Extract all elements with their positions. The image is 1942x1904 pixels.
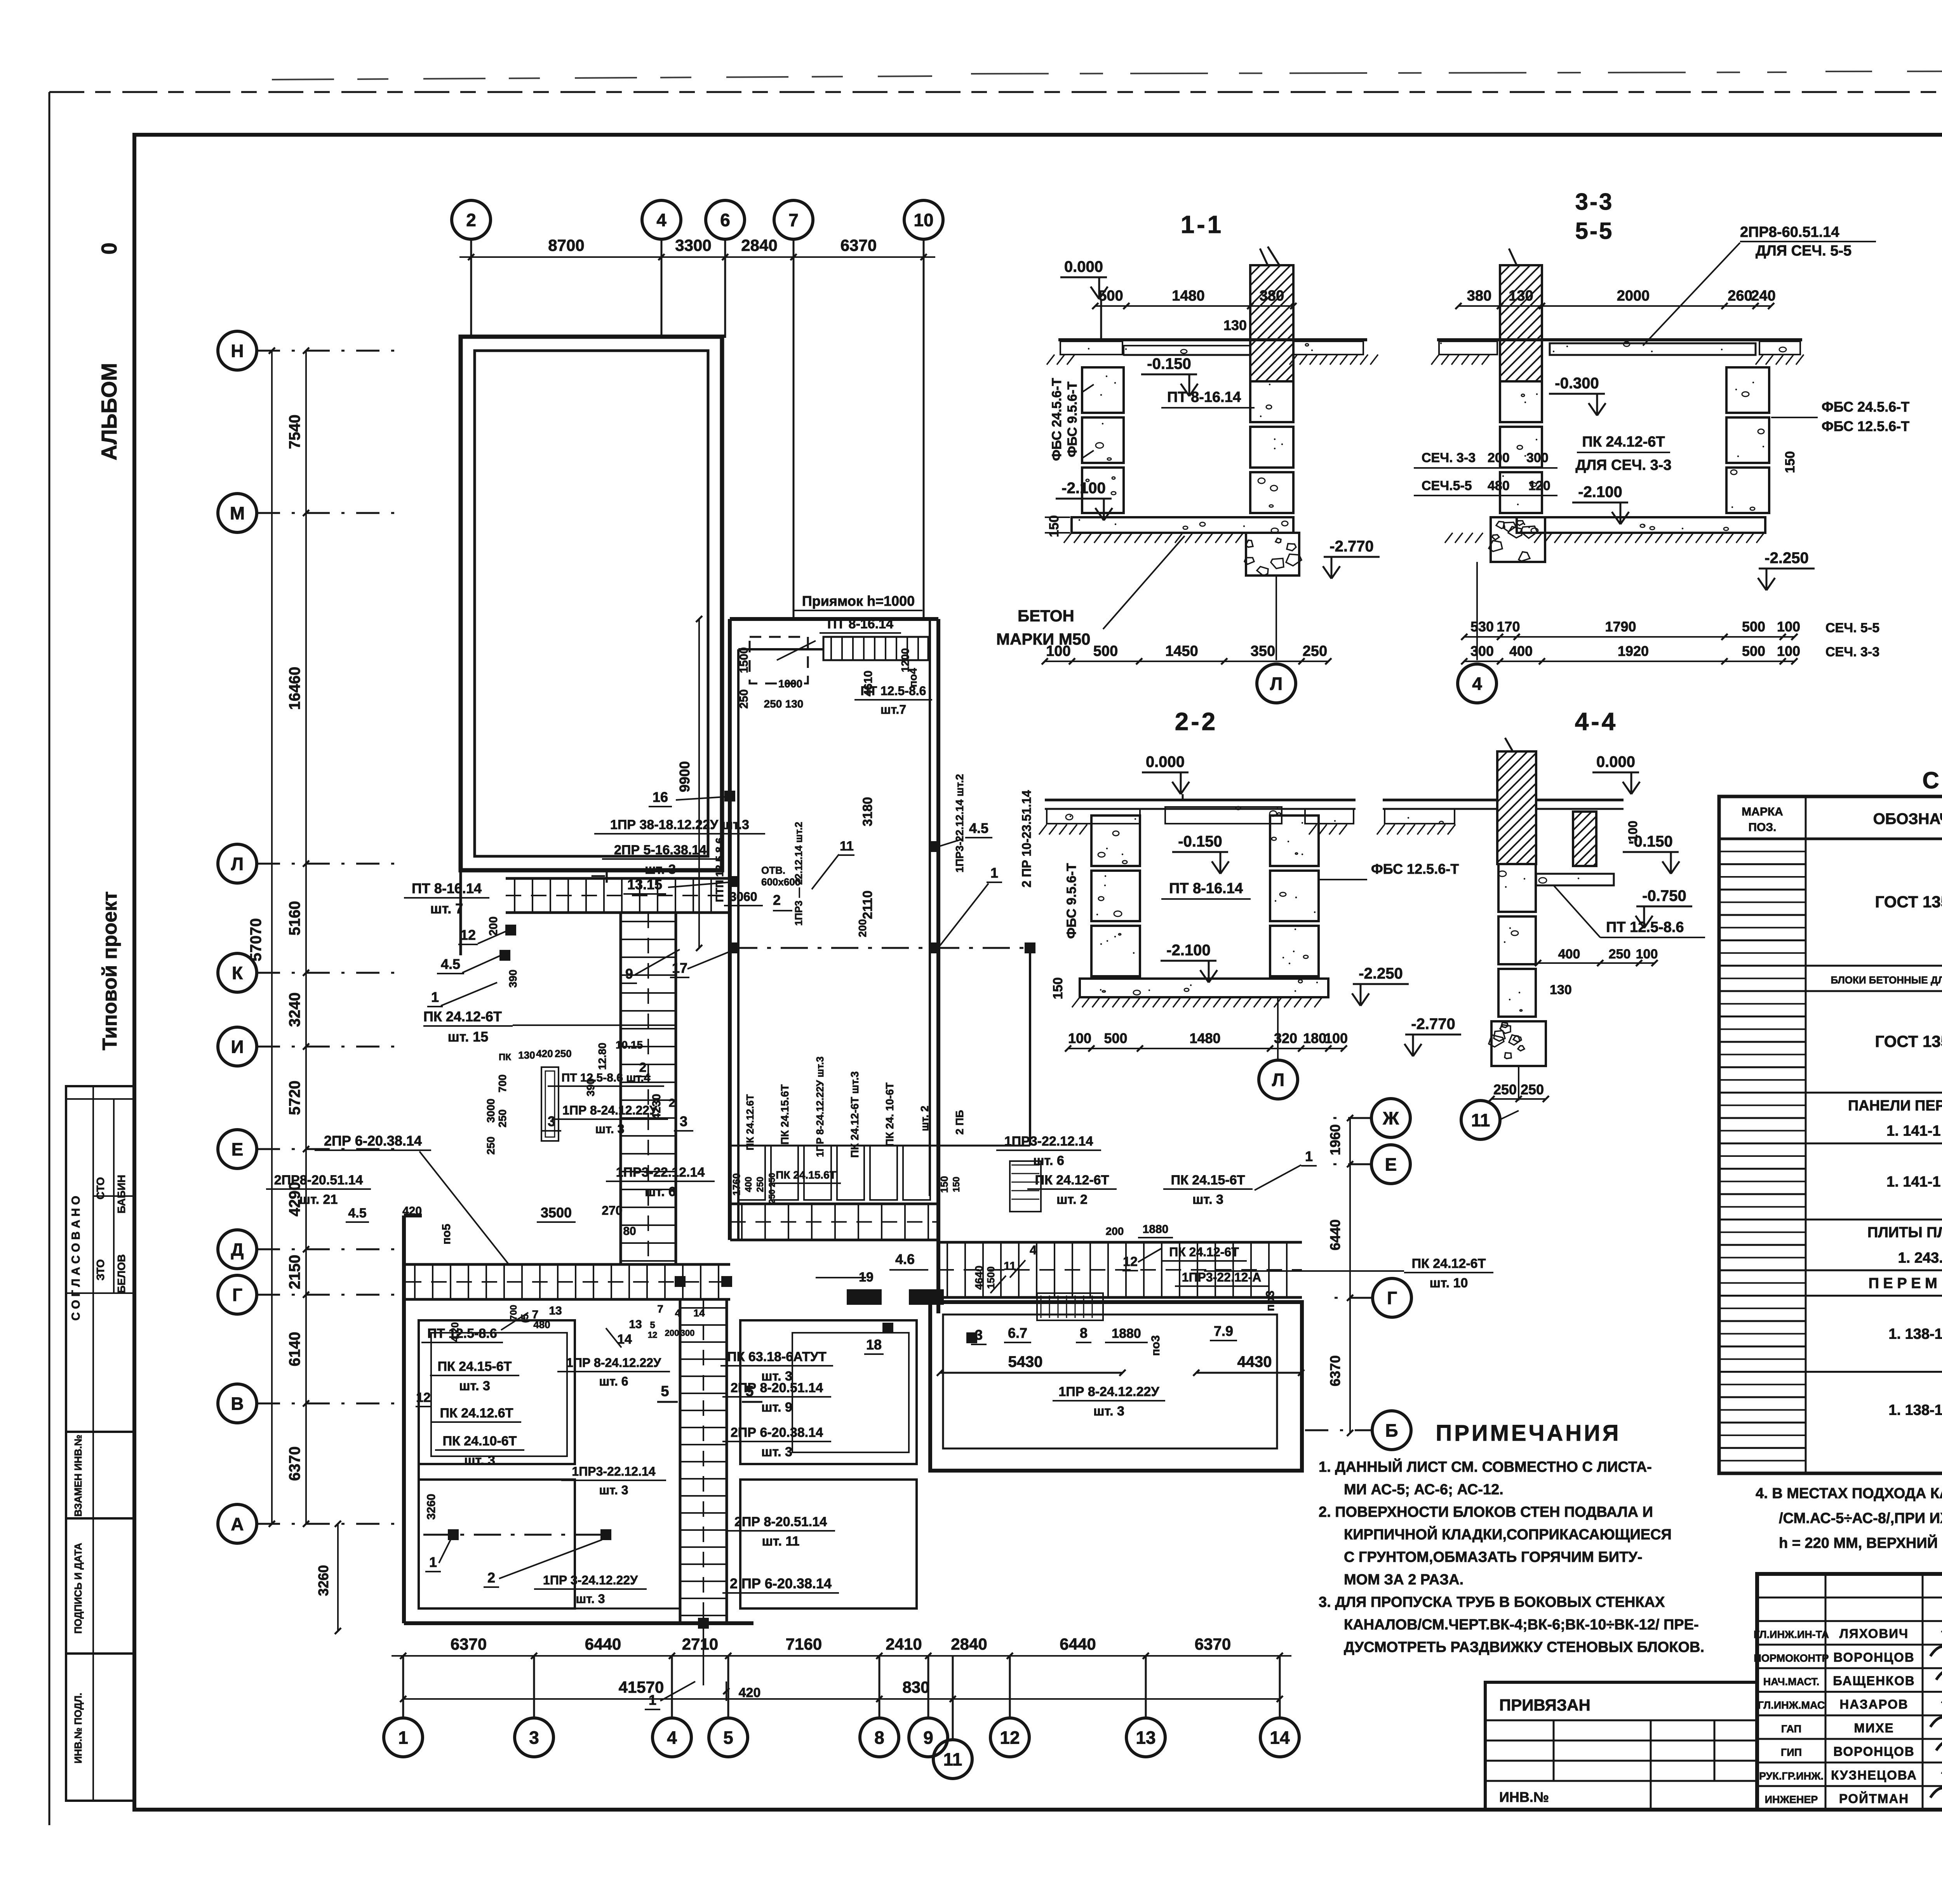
svg-text:ПК 24.12-6Т: ПК 24.12-6Т <box>1412 1256 1486 1271</box>
svg-text:ГЛ.ИНЖ.МАС: ГЛ.ИНЖ.МАС <box>1758 1699 1825 1711</box>
svg-text:150: 150 <box>1047 515 1061 537</box>
svg-text:100: 100 <box>1626 821 1640 841</box>
svg-text:1ПР 8-24.12.22У: 1ПР 8-24.12.22У <box>566 1356 661 1370</box>
svg-text:Приямок h=1000: Приямок h=1000 <box>802 593 915 609</box>
svg-text:200: 200 <box>856 919 868 937</box>
svg-text:Н: Н <box>231 341 244 361</box>
svg-text:11: 11 <box>1471 1110 1490 1130</box>
svg-text:ПОЗ.: ПОЗ. <box>1748 821 1776 834</box>
svg-text:шт. 3: шт. 3 <box>464 1453 495 1468</box>
svg-text:1ПР3-22.12.14 шт.2: 1ПР3-22.12.14 шт.2 <box>954 774 966 873</box>
svg-text:1ПР 3-24.12.22У: 1ПР 3-24.12.22У <box>543 1573 638 1587</box>
svg-text:шт. 9: шт. 9 <box>761 1400 792 1415</box>
svg-text:10: 10 <box>914 210 933 230</box>
svg-text:8700: 8700 <box>548 236 584 254</box>
svg-text:170: 170 <box>1497 619 1520 635</box>
svg-text:2 ПБ: 2 ПБ <box>954 1110 966 1135</box>
svg-text:h = 220 ММ, ВЕРХНИЙ РЯД БЛОКОВ: h = 220 ММ, ВЕРХНИЙ РЯД БЛОКОВ ЗАМЕНИТЬ … <box>1779 1534 1942 1551</box>
svg-text:ПК 24.15.6Т: ПК 24.15.6Т <box>779 1084 791 1145</box>
svg-text:ВЗАМЕН ИНВ.№: ВЗАМЕН ИНВ.№ <box>72 1435 84 1517</box>
svg-text:ПК 24.12.6Т: ПК 24.12.6Т <box>744 1094 756 1151</box>
svg-text:Л: Л <box>1270 674 1282 694</box>
svg-text:4: 4 <box>1030 1243 1037 1257</box>
svg-text:РУК.ГР.ИНЖ.: РУК.ГР.ИНЖ. <box>1759 1770 1824 1782</box>
svg-text:шт. 7: шт. 7 <box>430 901 463 916</box>
svg-text:шт. 6: шт. 6 <box>645 1184 676 1199</box>
svg-text:ПТП 12.5.8.6: ПТП 12.5.8.6 <box>713 838 726 902</box>
svg-text:1880: 1880 <box>1112 1326 1141 1341</box>
svg-text:4: 4 <box>667 1728 677 1748</box>
svg-text:ФБС 12.5.6-Т: ФБС 12.5.6-Т <box>1371 861 1459 877</box>
svg-text:шт. 3: шт. 3 <box>1093 1404 1124 1419</box>
svg-text:2110: 2110 <box>860 890 875 919</box>
svg-text:1ПР3-22.12.14: 1ПР3-22.12.14 <box>616 1165 705 1180</box>
svg-text:1. 141-1 В. 60: 1. 141-1 В. 60 <box>1886 1174 1942 1190</box>
svg-text:ПК 24.12-6Т шт.3: ПК 24.12-6Т шт.3 <box>849 1071 861 1158</box>
svg-text:МАРКА: МАРКА <box>1742 805 1783 818</box>
svg-text:500: 500 <box>1742 643 1765 659</box>
svg-text:ПЛИТЫ ПЛОСКИЕ: ПЛИТЫ ПЛОСКИЕ <box>1867 1224 1942 1241</box>
svg-text:2: 2 <box>669 1097 675 1109</box>
svg-text:250: 250 <box>1609 947 1631 962</box>
svg-text:Д: Д <box>231 1240 244 1260</box>
svg-text:6.7: 6.7 <box>1008 1325 1027 1341</box>
svg-text:2ПР8-20.51.14: 2ПР8-20.51.14 <box>274 1173 363 1188</box>
svg-text:ПТ 12.5-8.6: ПТ 12.5-8.6 <box>1606 919 1684 935</box>
svg-text:ПК 63.18-6АТУТ: ПК 63.18-6АТУТ <box>727 1349 827 1364</box>
svg-text:ПТ 8-16.14: ПТ 8-16.14 <box>827 617 893 631</box>
svg-text:5-5: 5-5 <box>1575 218 1614 244</box>
svg-text:1. 138-10 В.1: 1. 138-10 В.1 <box>1888 1326 1942 1342</box>
svg-text:-2.100: -2.100 <box>1166 942 1210 959</box>
svg-text:14: 14 <box>1270 1728 1290 1748</box>
svg-text:3: 3 <box>680 1113 687 1129</box>
svg-text:СТО: СТО <box>94 1177 106 1200</box>
svg-text:СЕЧ. 5-5: СЕЧ. 5-5 <box>1825 621 1879 635</box>
svg-text:700: 700 <box>508 1305 519 1320</box>
svg-text:8: 8 <box>874 1728 884 1748</box>
svg-text:КИРПИЧНОЙ КЛАДКИ,СОПРИКАСАЮЩИЕ: КИРПИЧНОЙ КЛАДКИ,СОПРИКАСАЮЩИЕСЯ <box>1344 1525 1672 1543</box>
svg-text:400: 400 <box>1509 643 1533 659</box>
svg-text:шт. 10: шт. 10 <box>1430 1276 1468 1290</box>
svg-text:1920: 1920 <box>1618 643 1649 659</box>
svg-text:ПОДПИСЬ И ДАТА: ПОДПИСЬ И ДАТА <box>72 1543 84 1634</box>
svg-text:Л: Л <box>1272 1070 1284 1090</box>
svg-text:РОЙТМАН: РОЙТМАН <box>1839 1791 1909 1806</box>
svg-text:МАРКИ М50: МАРКИ М50 <box>996 630 1091 648</box>
svg-text:1450: 1450 <box>1165 643 1198 659</box>
svg-text:530: 530 <box>1470 619 1494 635</box>
svg-text:0.000: 0.000 <box>1146 753 1185 770</box>
svg-text:5: 5 <box>661 1383 669 1400</box>
svg-text:ПК 24.15-6Т: ПК 24.15-6Т <box>438 1359 512 1374</box>
svg-text:300: 300 <box>680 1328 695 1338</box>
svg-text:МОМ ЗА 2 РАЗА.: МОМ ЗА 2 РАЗА. <box>1344 1572 1463 1588</box>
svg-text:6440: 6440 <box>585 1635 621 1653</box>
svg-text:200: 200 <box>1106 1225 1124 1237</box>
svg-text:1880: 1880 <box>1143 1223 1169 1236</box>
svg-text:2 ПР 10-23.51.14: 2 ПР 10-23.51.14 <box>1020 790 1034 887</box>
svg-text:6370: 6370 <box>1195 1635 1231 1653</box>
svg-text:400: 400 <box>743 1177 754 1192</box>
svg-text:С ГРУНТОМ,ОБМАЗАТЬ ГОРЯЧИМ БИ: С ГРУНТОМ,ОБМАЗАТЬ ГОРЯЧИМ БИТУ- <box>1344 1549 1643 1565</box>
svg-text:150: 150 <box>938 1176 950 1193</box>
svg-text:12: 12 <box>460 927 476 943</box>
svg-text:шт. 2: шт. 2 <box>1056 1192 1088 1207</box>
svg-text:1ПР 38-18.12.22У шт.3: 1ПР 38-18.12.22У шт.3 <box>610 817 749 832</box>
svg-text:12.80: 12.80 <box>596 1043 608 1070</box>
svg-text:БЛОКИ БЕТОННЫЕ ДЛЯ СТЕН ПОДВАЛ: БЛОКИ БЕТОННЫЕ ДЛЯ СТЕН ПОДВАЛА <box>1831 974 1942 986</box>
svg-text:по4: по4 <box>907 668 919 687</box>
svg-text:Е: Е <box>1385 1155 1397 1175</box>
svg-text:4: 4 <box>656 210 666 230</box>
svg-text:ФБС 9.5.6-Т: ФБС 9.5.6-Т <box>1064 863 1079 939</box>
svg-text:1ПР 8-24.12.22У шт.3: 1ПР 8-24.12.22У шт.3 <box>814 1056 826 1157</box>
svg-text:СЕЧ.5-5: СЕЧ.5-5 <box>1422 478 1472 493</box>
svg-text:-2.100: -2.100 <box>1061 480 1105 497</box>
svg-text:НОРМОКОНТР: НОРМОКОНТР <box>1754 1652 1829 1664</box>
svg-text:(5: (5 <box>519 1314 531 1323</box>
svg-text:250: 250 <box>496 1109 508 1128</box>
svg-text:13: 13 <box>549 1304 562 1317</box>
svg-text:11: 11 <box>1004 1260 1016 1273</box>
svg-text:А: А <box>231 1514 244 1534</box>
svg-text:130: 130 <box>1223 317 1247 333</box>
svg-text:ГАП: ГАП <box>1781 1723 1801 1735</box>
svg-text:2710: 2710 <box>682 1635 718 1653</box>
svg-text:ИНЖЕНЕР: ИНЖЕНЕР <box>1765 1794 1818 1805</box>
svg-text:4. В МЕСТАХ ПОДХОДА КАНАЛОВ К: 4. В МЕСТАХ ПОДХОДА КАНАЛОВ К ШТРАБИРУЕМ… <box>1756 1485 1942 1502</box>
svg-text:-0.150: -0.150 <box>1147 355 1191 372</box>
svg-text:ОБОЗНАЧЕНИЕ: ОБОЗНАЧЕНИЕ <box>1873 810 1942 828</box>
svg-text:6440: 6440 <box>1060 1635 1096 1653</box>
svg-text:16: 16 <box>653 789 668 805</box>
svg-text:К: К <box>232 963 243 983</box>
svg-text:500: 500 <box>1098 288 1123 304</box>
svg-text:830: 830 <box>902 1678 929 1696</box>
svg-text:150: 150 <box>951 1177 962 1192</box>
svg-text:250: 250 <box>1521 1082 1544 1097</box>
svg-text:2ПР 6-20.38.14: 2ПР 6-20.38.14 <box>324 1133 422 1149</box>
svg-text:2-2: 2-2 <box>1175 708 1218 736</box>
svg-text:С О Г Л А С О В А Н О: С О Г Л А С О В А Н О <box>70 1196 82 1320</box>
svg-text:180: 180 <box>1303 1030 1326 1046</box>
svg-text:300: 300 <box>1526 450 1549 465</box>
svg-text:4: 4 <box>1472 674 1482 694</box>
svg-text:МИХЕ: МИХЕ <box>1854 1721 1894 1735</box>
svg-text:шт. 3: шт. 3 <box>459 1379 490 1393</box>
svg-text:ПАНЕЛИ ПЕРЕКРЫТИЯ: ПАНЕЛИ ПЕРЕКРЫТИЯ <box>1848 1097 1942 1114</box>
svg-text:ГЛ.ИНЖ.ИН-ТА: ГЛ.ИНЖ.ИН-ТА <box>1754 1629 1829 1640</box>
svg-text:ПТ 8-16.14: ПТ 8-16.14 <box>412 880 482 896</box>
svg-text:5: 5 <box>723 1728 733 1748</box>
svg-text:ФБС 24.5.6-Т: ФБС 24.5.6-Т <box>1049 378 1064 461</box>
svg-text:350: 350 <box>1251 643 1275 659</box>
svg-text:3260: 3260 <box>425 1494 438 1520</box>
svg-text:3. ДЛЯ ПРОПУСКА ТРУБ В БОКОВЫХ: 3. ДЛЯ ПРОПУСКА ТРУБ В БОКОВЫХ СТЕНКАХ <box>1319 1594 1665 1610</box>
svg-text:250: 250 <box>755 1177 766 1192</box>
svg-text:250: 250 <box>764 698 782 710</box>
svg-text:шт. 15: шт. 15 <box>448 1029 489 1045</box>
svg-text:И: И <box>231 1037 244 1057</box>
svg-text:1: 1 <box>990 865 998 881</box>
svg-text:12: 12 <box>648 1330 657 1340</box>
svg-text:шт. 11: шт. 11 <box>762 1534 800 1549</box>
svg-text:200: 200 <box>487 916 500 936</box>
svg-text:2: 2 <box>487 1570 495 1586</box>
svg-text:ПТ 12.5-8.6 шт.4: ПТ 12.5-8.6 шт.4 <box>562 1071 651 1084</box>
svg-text:Ж: Ж <box>1382 1108 1399 1128</box>
svg-text:100: 100 <box>1777 643 1800 659</box>
svg-text:5: 5 <box>650 1320 655 1330</box>
svg-text:0.000: 0.000 <box>1596 753 1635 770</box>
svg-text:ГОСТ 13579-78: ГОСТ 13579-78 <box>1875 1032 1942 1050</box>
svg-text:13: 13 <box>1136 1728 1155 1748</box>
svg-text:1960: 1960 <box>1327 1124 1343 1155</box>
svg-text:3240: 3240 <box>286 993 303 1027</box>
svg-text:шт. 6: шт. 6 <box>599 1374 628 1388</box>
svg-text:0.000: 0.000 <box>1064 258 1103 275</box>
svg-text:9: 9 <box>625 966 633 982</box>
svg-text:ПТ 8-16.14: ПТ 8-16.14 <box>1167 389 1241 405</box>
svg-text:1ПР3-22.12.14: 1ПР3-22.12.14 <box>572 1464 655 1478</box>
svg-text:17: 17 <box>672 960 687 976</box>
svg-text:БЕТОН: БЕТОН <box>1018 607 1074 625</box>
svg-text:1: 1 <box>429 1554 437 1570</box>
svg-text:1-1: 1-1 <box>1181 210 1224 238</box>
svg-text:6440: 6440 <box>1327 1219 1343 1250</box>
svg-text:250: 250 <box>485 1137 497 1155</box>
svg-text:ПК 24.15-6Т: ПК 24.15-6Т <box>1171 1173 1245 1188</box>
svg-text:1: 1 <box>431 989 439 1005</box>
svg-text:ПК: ПК <box>499 1052 511 1062</box>
svg-text:Л: Л <box>231 854 244 874</box>
svg-text:11: 11 <box>943 1749 962 1770</box>
svg-text:СЕЧ. 3-3: СЕЧ. 3-3 <box>1422 450 1476 465</box>
svg-text:2ПР 8-20.51.14: 2ПР 8-20.51.14 <box>731 1381 823 1395</box>
svg-text:1480: 1480 <box>1172 288 1205 304</box>
svg-text:100: 100 <box>1068 1030 1091 1046</box>
svg-text:ГОСТ 13579-78: ГОСТ 13579-78 <box>1875 892 1942 911</box>
svg-text:150: 150 <box>1051 977 1065 1000</box>
svg-text:КАНАЛОВ/СМ.ЧЕРТ.ВК-4;ВК-6;ВК-1: КАНАЛОВ/СМ.ЧЕРТ.ВК-4;ВК-6;ВК-10÷ВК-12/ П… <box>1344 1617 1699 1633</box>
svg-text:7.9: 7.9 <box>1214 1323 1233 1339</box>
svg-text:НАЗАРОВ: НАЗАРОВ <box>1839 1697 1908 1711</box>
svg-text:7: 7 <box>657 1303 663 1315</box>
svg-text:12: 12 <box>1123 1254 1138 1269</box>
svg-text:3: 3 <box>975 1327 983 1343</box>
svg-text:7540: 7540 <box>286 415 303 449</box>
svg-text:ПТ 12.5-8.6: ПТ 12.5-8.6 <box>427 1326 497 1341</box>
svg-text:ВОРОНЦОВ: ВОРОНЦОВ <box>1833 1744 1914 1759</box>
svg-text:2840: 2840 <box>951 1635 987 1653</box>
svg-text:ПК 24. 10-6Т: ПК 24. 10-6Т <box>884 1083 896 1147</box>
svg-text:1: 1 <box>1305 1148 1313 1164</box>
svg-text:2840: 2840 <box>741 236 777 254</box>
svg-text:шт. 2: шт. 2 <box>919 1106 931 1131</box>
svg-text:420: 420 <box>739 1685 761 1700</box>
svg-text:130: 130 <box>1550 982 1572 997</box>
svg-text:1. ДАННЫЙ ЛИСТ СМ. СОВМЕСТНО С: 1. ДАННЫЙ ЛИСТ СМ. СОВМЕСТНО С ЛИСТА- <box>1319 1458 1652 1475</box>
svg-text:шт. 3: шт. 3 <box>645 862 676 877</box>
svg-text:250: 250 <box>1303 643 1327 659</box>
svg-text:2: 2 <box>466 210 476 230</box>
svg-text:500: 500 <box>1104 1030 1127 1046</box>
svg-text:Е: Е <box>231 1139 244 1160</box>
svg-text:1: 1 <box>649 1692 656 1708</box>
svg-text:7: 7 <box>788 210 799 230</box>
svg-text:4.5: 4.5 <box>348 1206 366 1221</box>
svg-text:130: 130 <box>785 698 804 710</box>
svg-text:3060: 3060 <box>729 890 757 904</box>
svg-text:-2.250: -2.250 <box>1359 965 1403 982</box>
svg-text:500: 500 <box>1093 643 1118 659</box>
svg-text:2150: 2150 <box>286 1255 303 1289</box>
svg-text:Г: Г <box>232 1285 242 1305</box>
svg-text:2: 2 <box>773 892 781 908</box>
svg-text:700: 700 <box>496 1075 508 1093</box>
svg-text:ДЛЯ СЕЧ. 3-3: ДЛЯ СЕЧ. 3-3 <box>1575 457 1671 473</box>
svg-text:2000: 2000 <box>1617 288 1650 304</box>
svg-text:4610: 4610 <box>862 671 875 697</box>
svg-text:ФБС 24.5.6-Т: ФБС 24.5.6-Т <box>1822 399 1909 415</box>
svg-text:7: 7 <box>532 1308 539 1321</box>
svg-text:380: 380 <box>1467 288 1491 304</box>
svg-text:1500: 1500 <box>738 647 750 673</box>
svg-text:БЕЛОВ: БЕЛОВ <box>115 1254 127 1293</box>
svg-text:6140: 6140 <box>286 1332 303 1367</box>
svg-text:1ПР3-22.12.14: 1ПР3-22.12.14 <box>1004 1134 1093 1149</box>
svg-text:-2.770: -2.770 <box>1411 1015 1455 1033</box>
svg-text:200: 200 <box>665 1328 679 1338</box>
svg-text:6370: 6370 <box>451 1635 487 1653</box>
svg-text:2ПР 8-20.51.14: 2ПР 8-20.51.14 <box>734 1515 827 1529</box>
svg-text:шт. 3: шт. 3 <box>595 1122 624 1136</box>
svg-text:9900: 9900 <box>677 761 693 792</box>
svg-text:3: 3 <box>529 1728 539 1748</box>
svg-text:ИНВ.№: ИНВ.№ <box>1499 1789 1549 1805</box>
svg-text:Б: Б <box>1385 1421 1398 1441</box>
svg-text:ПК 24.12-6Т: ПК 24.12-6Т <box>1582 434 1665 450</box>
svg-text:4430: 4430 <box>1237 1353 1272 1370</box>
svg-text:1500: 1500 <box>985 1266 997 1289</box>
svg-text:8: 8 <box>1080 1325 1088 1341</box>
svg-text:16460: 16460 <box>286 667 303 710</box>
svg-text:-2.100: -2.100 <box>1578 483 1622 501</box>
svg-text:4.5: 4.5 <box>441 956 460 972</box>
svg-text:МИ АС-5; АС-6; АС-12.: МИ АС-5; АС-6; АС-12. <box>1344 1481 1503 1498</box>
svg-text:9: 9 <box>923 1728 933 1748</box>
svg-text:270: 270 <box>602 1203 622 1217</box>
svg-text:ПРИМЕЧАНИЯ: ПРИМЕЧАНИЯ <box>1436 1421 1621 1446</box>
svg-text:5720: 5720 <box>286 1081 303 1115</box>
svg-text:6370: 6370 <box>1327 1355 1343 1386</box>
svg-text:1760: 1760 <box>731 1173 742 1196</box>
svg-text:шт. 3: шт. 3 <box>576 1592 605 1606</box>
svg-text:300: 300 <box>1470 643 1494 659</box>
svg-text:-0.300: -0.300 <box>1555 375 1599 392</box>
svg-text:2410: 2410 <box>886 1635 922 1653</box>
svg-text:ИНВ.№ ПОДЛ.: ИНВ.№ ПОДЛ. <box>72 1693 84 1763</box>
svg-text:ОТВ.: ОТВ. <box>761 864 785 876</box>
svg-text:100: 100 <box>1324 1030 1348 1046</box>
svg-text:П Е Р Е М Ы Ч К И: П Е Р Е М Ы Ч К И <box>1869 1275 1942 1292</box>
svg-text:-0.750: -0.750 <box>1642 887 1686 904</box>
svg-text:ЛЯХОВИЧ: ЛЯХОВИЧ <box>1839 1626 1909 1641</box>
svg-text:7160: 7160 <box>786 1635 822 1653</box>
svg-text:10.15: 10.15 <box>616 1039 643 1051</box>
svg-text:100: 100 <box>1046 643 1070 659</box>
svg-text:1ПР3-22.12-А: 1ПР3-22.12-А <box>1182 1270 1261 1284</box>
svg-text:41570: 41570 <box>619 1678 664 1696</box>
svg-text:1790: 1790 <box>1605 619 1636 635</box>
svg-text:6370: 6370 <box>840 236 877 254</box>
svg-text:4: 4 <box>675 1307 681 1319</box>
svg-text:3300: 3300 <box>675 236 711 254</box>
svg-text:500: 500 <box>1742 619 1765 635</box>
svg-text:ПК 24.12.6Т: ПК 24.12.6Т <box>440 1406 513 1421</box>
svg-text:130: 130 <box>518 1049 535 1061</box>
svg-text:1000: 1000 <box>778 678 802 690</box>
svg-text:150: 150 <box>1783 451 1798 473</box>
svg-text:6370: 6370 <box>286 1447 303 1481</box>
svg-text:2ПР 6-20.38.14: 2ПР 6-20.38.14 <box>731 1425 823 1440</box>
svg-text:ПК 24.15.6Т: ПК 24.15.6Т <box>776 1169 836 1181</box>
svg-text:390: 390 <box>507 970 519 988</box>
svg-text:ПК 24.12-6Т: ПК 24.12-6Т <box>1035 1173 1109 1188</box>
svg-text:11: 11 <box>840 839 854 854</box>
svg-text:ФБС 9.5.6-Т: ФБС 9.5.6-Т <box>1065 381 1080 457</box>
svg-text:шт. 3: шт. 3 <box>761 1445 792 1459</box>
svg-text:2 ПР 6-20.38.14: 2 ПР 6-20.38.14 <box>730 1575 832 1591</box>
svg-text:130: 130 <box>1509 288 1533 304</box>
svg-text:2. ПОВЕРХНОСТИ БЛОКОВ СТЕН ПОД: 2. ПОВЕРХНОСТИ БЛОКОВ СТЕН ПОДВАЛА И <box>1319 1504 1653 1520</box>
svg-text:шт.7: шт.7 <box>881 702 906 716</box>
svg-text:М: М <box>230 503 245 523</box>
svg-text:3180: 3180 <box>860 797 875 826</box>
svg-text:Г: Г <box>1387 1288 1397 1308</box>
svg-text:—|: —| <box>592 868 609 883</box>
svg-text:3260: 3260 <box>315 1565 331 1596</box>
svg-text:шт. 21: шт. 21 <box>299 1192 338 1207</box>
svg-text:4.6: 4.6 <box>895 1251 915 1267</box>
svg-text:ЗТО: ЗТО <box>94 1259 106 1281</box>
svg-text:-2.770: -2.770 <box>1329 538 1373 555</box>
svg-text:12: 12 <box>1000 1728 1020 1748</box>
svg-text:АЛЬБОМ: АЛЬБОМ <box>97 363 121 460</box>
svg-text:1ПР 8-24.12.22У: 1ПР 8-24.12.22У <box>1058 1384 1159 1399</box>
svg-text:380: 380 <box>1260 288 1284 304</box>
svg-text:1: 1 <box>398 1728 408 1748</box>
svg-text:ГИП: ГИП <box>1781 1747 1802 1758</box>
svg-text:шт. 3: шт. 3 <box>1192 1192 1223 1207</box>
svg-text:100: 100 <box>1636 947 1658 962</box>
svg-text:ПРИВЯЗАН: ПРИВЯЗАН <box>1499 1696 1590 1714</box>
svg-text:120: 120 <box>1528 478 1550 493</box>
svg-text:ДУСМОТРЕТЬ РАЗДВИЖКУ СТЕНОВЫХ: ДУСМОТРЕТЬ РАЗДВИЖКУ СТЕНОВЫХ БЛОКОВ. <box>1344 1639 1704 1655</box>
svg-text:-0.150: -0.150 <box>1178 833 1222 850</box>
svg-text:ПК 24.12-6Т: ПК 24.12-6Т <box>423 1009 502 1024</box>
svg-text:БАЩЕНКОВ: БАЩЕНКОВ <box>1833 1674 1915 1688</box>
svg-text:ПК 24.10-6Т: ПК 24.10-6Т <box>443 1434 517 1448</box>
svg-text:КУЗНЕЦОВА: КУЗНЕЦОВА <box>1831 1768 1917 1782</box>
svg-text:2ПР 5-16.38.14: 2ПР 5-16.38.14 <box>614 843 706 857</box>
svg-text:250: 250 <box>738 689 750 709</box>
svg-text:В: В <box>231 1394 244 1414</box>
svg-text:ВОРОНЦОВ: ВОРОНЦОВ <box>1833 1650 1914 1664</box>
svg-text:по5: по5 <box>440 1224 453 1244</box>
svg-text:3000: 3000 <box>485 1099 497 1123</box>
